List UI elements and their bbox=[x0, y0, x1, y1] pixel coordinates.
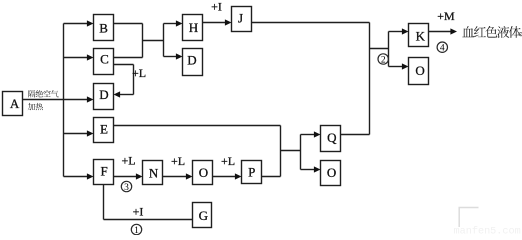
svg-text:O: O bbox=[415, 63, 424, 78]
svg-text:H: H bbox=[189, 20, 198, 35]
wire right vertical bbox=[369, 23, 371, 135]
arrowhead into O3 bbox=[402, 63, 409, 69]
wire to Q bbox=[301, 134, 317, 136]
box K bbox=[409, 24, 429, 47]
wire H to J bbox=[203, 22, 228, 24]
arrowhead into H bbox=[176, 20, 183, 26]
wire O1 to P bbox=[213, 176, 237, 178]
box Q bbox=[321, 126, 341, 152]
svg-text:4: 4 bbox=[440, 44, 445, 54]
svg-text:+L: +L bbox=[171, 154, 185, 168]
svg-text:J: J bbox=[238, 11, 243, 26]
arrowhead into D right bbox=[114, 91, 121, 97]
svg-text:O: O bbox=[327, 165, 336, 180]
arrowhead into F bbox=[87, 173, 94, 179]
wire to D2 bbox=[164, 56, 179, 58]
svg-text:+L: +L bbox=[221, 154, 235, 168]
svg-text:+M: +M bbox=[437, 9, 455, 23]
wire trunk to E bbox=[64, 133, 90, 135]
svg-text:B: B bbox=[99, 20, 108, 35]
label 加热 bbox=[28, 103, 43, 110]
box B bbox=[94, 15, 114, 41]
wire EP merge vertical bbox=[280, 126, 282, 177]
svg-text:+I: +I bbox=[211, 0, 222, 14]
wire to O2 bbox=[301, 169, 317, 171]
box G bbox=[193, 203, 212, 228]
wire trunk to C bbox=[64, 57, 90, 59]
svg-text:N: N bbox=[149, 165, 159, 180]
wire to O3 bbox=[389, 66, 405, 68]
wire B out bbox=[114, 23, 143, 25]
svg-text:+I: +I bbox=[133, 205, 144, 219]
svg-text:P: P bbox=[248, 164, 255, 179]
arrowhead into E bbox=[87, 130, 94, 136]
wire trunk vertical bbox=[63, 24, 65, 177]
wire KO branch vertical bbox=[388, 32, 390, 67]
arrowhead into P bbox=[235, 173, 242, 179]
arrowhead into N bbox=[136, 173, 143, 179]
arrowhead into B bbox=[87, 20, 94, 26]
wire trunk to B bbox=[64, 23, 90, 25]
wire A to D bbox=[23, 99, 90, 101]
wire F down bbox=[103, 185, 105, 220]
svg-text:1: 1 bbox=[134, 226, 139, 235]
box H bbox=[183, 15, 203, 41]
arrowhead into O1 bbox=[186, 173, 193, 179]
svg-text:Q: Q bbox=[327, 130, 337, 145]
wire F to N bbox=[114, 176, 138, 178]
arrowhead into J bbox=[225, 19, 232, 25]
circled number 2 bbox=[378, 54, 388, 66]
box P bbox=[242, 161, 262, 184]
box O1 bbox=[193, 161, 213, 185]
arrowhead into D2 bbox=[176, 53, 183, 59]
svg-text:K: K bbox=[416, 29, 426, 44]
svg-text:F: F bbox=[100, 164, 107, 179]
wire stub to QO bbox=[281, 150, 301, 152]
arrowhead into D left bbox=[87, 96, 94, 102]
label 血红色液体 bbox=[462, 26, 521, 38]
circled number 1 bbox=[131, 224, 141, 236]
svg-text:C: C bbox=[100, 52, 109, 67]
box J bbox=[232, 7, 252, 32]
arrowhead into C bbox=[87, 54, 94, 60]
wire to H bbox=[164, 23, 179, 25]
wire J out bbox=[252, 22, 370, 24]
svg-text:D: D bbox=[187, 53, 196, 68]
wire stub to KO bbox=[370, 48, 389, 50]
svg-text:manfen5.com: manfen5.com bbox=[454, 225, 521, 235]
svg-text:E: E bbox=[100, 122, 108, 137]
svg-text:D: D bbox=[99, 87, 108, 102]
box F bbox=[94, 160, 114, 185]
wire K out bbox=[429, 31, 453, 33]
svg-text:A: A bbox=[10, 96, 20, 111]
arrowhead into K bbox=[402, 28, 409, 34]
wire E out bbox=[114, 125, 281, 127]
watermark corner bracket bbox=[459, 208, 478, 228]
box O2 bbox=[321, 161, 341, 186]
svg-text:G: G bbox=[199, 208, 208, 223]
arrowhead into O2 bbox=[314, 166, 321, 172]
box O3 bbox=[409, 58, 429, 85]
wire QO branch vertical bbox=[300, 135, 302, 170]
label 隔绝空气 bbox=[28, 90, 58, 97]
wire Q out bbox=[341, 134, 370, 136]
wire L vertical bbox=[133, 65, 135, 95]
wire trunk to F bbox=[64, 176, 90, 178]
circled number 4 bbox=[437, 42, 447, 54]
svg-text:O: O bbox=[199, 165, 208, 180]
wire C out upper bbox=[114, 57, 143, 59]
arrowhead into Q bbox=[314, 131, 321, 137]
wire HD branch vertical bbox=[163, 24, 165, 57]
svg-text:+L: +L bbox=[121, 154, 135, 168]
trailing dot after 液体 bbox=[519, 33, 522, 36]
wire BC middle bbox=[143, 40, 164, 42]
svg-text:3: 3 bbox=[124, 183, 129, 193]
svg-text:+L: +L bbox=[132, 66, 146, 80]
wire L to D bbox=[118, 94, 134, 96]
box N bbox=[143, 161, 163, 185]
box E bbox=[94, 118, 114, 143]
wire to K bbox=[389, 31, 405, 33]
box D2 bbox=[183, 49, 203, 76]
wire C out lower bbox=[114, 64, 134, 66]
arrowhead K out arrow bbox=[450, 28, 457, 34]
svg-text:2: 2 bbox=[381, 55, 386, 65]
box D bbox=[94, 84, 114, 110]
wire P out bbox=[262, 176, 281, 178]
wire to G bbox=[104, 219, 193, 221]
wire N to O1 bbox=[163, 176, 188, 178]
box C bbox=[94, 49, 114, 75]
box A bbox=[3, 92, 23, 116]
circled number 3 bbox=[121, 181, 131, 193]
wire BC merge vertical bbox=[142, 24, 144, 58]
